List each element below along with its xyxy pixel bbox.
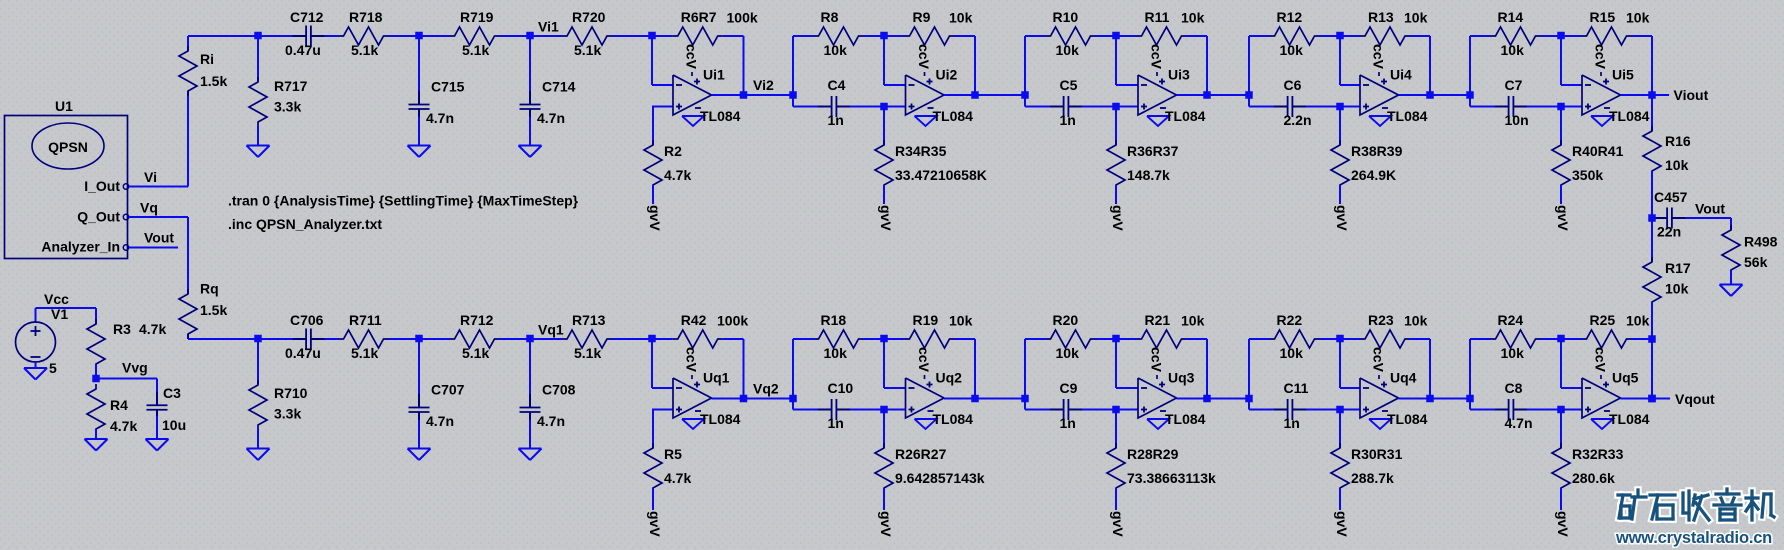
node feedback junction x1116 — [1112, 335, 1120, 343]
wire output of Ui4 — [1399, 94, 1431, 96]
wire R34R35 to Vvg label — [883, 185, 885, 204]
capacitor C715 (shunt) — [418, 36, 420, 97]
wire 1249 up to main line — [1248, 339, 1250, 399]
resistor R719 (5.1k) — [419, 35, 450, 37]
svg-text:10k: 10k — [1665, 281, 1689, 297]
node junction at x258 — [254, 32, 262, 40]
svg-text:R19: R19 — [913, 312, 939, 328]
svg-text:TL084: TL084 — [933, 108, 974, 124]
wire feedback right side down to output — [1429, 339, 1431, 399]
svg-text:C8: C8 — [1505, 380, 1523, 396]
node feedback junction x652 — [648, 32, 656, 40]
svg-text:R718: R718 — [349, 9, 383, 25]
svg-text:22n: 22n — [1657, 224, 1681, 240]
wire non-inverting input to R leg — [653, 106, 673, 108]
node stage input junction x793 — [789, 91, 797, 99]
wire right column vertical Viout to divider — [1651, 95, 1653, 131]
op-amp Uq4 — [1360, 378, 1399, 418]
node output junction of Uq5 — [1648, 395, 1656, 403]
svg-text:1n: 1n — [828, 112, 844, 128]
svg-text:Analyzer_In: Analyzer_In — [41, 239, 120, 255]
ground under R710 — [247, 448, 270, 450]
node feedback junction x652 — [648, 335, 656, 343]
resistor R23 (feedback) — [1340, 338, 1360, 340]
svg-text:ccV: ccV — [684, 347, 700, 373]
wire stage output to next stage input (top) — [1207, 94, 1249, 96]
svg-text:Vi: Vi — [144, 169, 157, 185]
wire Q_Out to Rq column — [129, 216, 188, 218]
resistor R28R29 (to Vvg) — [1115, 410, 1117, 449]
svg-text:33.47210658K: 33.47210658K — [895, 167, 987, 183]
svg-text:R8: R8 — [821, 9, 839, 25]
svg-text:10k: 10k — [1626, 10, 1650, 26]
svg-text:C708: C708 — [542, 381, 576, 397]
resistor Rq — [179, 289, 197, 339]
wire feedback right side down to output — [1651, 36, 1653, 95]
svg-text:R11: R11 — [1145, 9, 1170, 25]
V- power pin triangle of Uq1 — [682, 419, 704, 429]
ground under R498 — [1720, 284, 1743, 286]
node junction at Vqout — [1648, 395, 1656, 403]
svg-text:R4: R4 — [110, 397, 128, 413]
wire cap node to non-inverting input — [1561, 106, 1582, 108]
resistor R4 — [87, 384, 105, 434]
svg-text:10k: 10k — [1280, 42, 1304, 58]
svg-text:10k: 10k — [949, 10, 973, 26]
wire cap node to non-inverting input — [884, 106, 906, 108]
svg-text:10u: 10u — [162, 417, 186, 433]
node Vvg junction — [92, 375, 100, 383]
wire feedback right side down to output — [1206, 36, 1208, 95]
svg-text:R40R41: R40R41 — [1572, 143, 1624, 159]
svg-text:R6R7: R6R7 — [681, 9, 717, 25]
wire stage output to next stage input (bottom) — [1207, 398, 1249, 400]
resistor R13 (feedback) — [1340, 35, 1360, 37]
svg-text:TL084: TL084 — [1387, 411, 1428, 427]
resistor R20 (stage input) — [1025, 338, 1046, 340]
wire V1 bottom — [35, 362, 37, 368]
resistor R10 (stage input) — [1025, 35, 1046, 37]
node junction at x530 — [526, 32, 534, 40]
svg-text:5.1k: 5.1k — [462, 42, 489, 58]
svg-text:Uq3: Uq3 — [1168, 370, 1195, 386]
wire R3 to Vvg node — [95, 364, 97, 379]
V- power pin triangle of Uq4 — [1369, 419, 1391, 429]
svg-text:gvV: gvV — [878, 205, 894, 231]
svg-text:10k: 10k — [824, 42, 848, 58]
svg-text:U1: U1 — [55, 98, 73, 114]
node output junction of Uq1 — [740, 395, 748, 403]
svg-text:R38R39: R38R39 — [1351, 143, 1403, 159]
svg-text:R711: R711 — [349, 312, 382, 328]
svg-text:10k: 10k — [824, 345, 848, 361]
wire Analyzer_In stub — [129, 247, 178, 249]
svg-text:5.1k: 5.1k — [574, 345, 601, 361]
resistor R30R31 (to Vvg) — [1339, 410, 1341, 449]
svg-text:gvV: gvV — [1110, 511, 1126, 537]
wire R36R37 to Vvg label — [1115, 185, 1117, 204]
capacitor C3 — [156, 392, 158, 406]
V- power pin triangle of Ui2 — [915, 116, 937, 126]
resistor R498 — [1730, 218, 1732, 230]
svg-text:gvV: gvV — [878, 511, 894, 537]
wire feedback node down to inverting input — [883, 36, 885, 85]
wire 793 up to main line — [792, 36, 794, 95]
capacitor C707 (shunt) — [418, 339, 420, 400]
resistor R9 (feedback) — [884, 35, 905, 37]
op-amp Ui2 — [906, 75, 945, 115]
svg-text:Vout: Vout — [144, 230, 174, 246]
svg-text:R30R31: R30R31 — [1351, 446, 1403, 462]
wire feedback right side down to output — [1429, 36, 1431, 95]
svg-text:288.7k: 288.7k — [1351, 470, 1394, 486]
resistor R712 (5.1k) — [419, 338, 450, 340]
svg-text:R14: R14 — [1498, 9, 1524, 25]
wire output of Ui3 — [1177, 94, 1208, 96]
wire R2 to Vvg label — [652, 185, 654, 204]
wire output of Uq3 — [1177, 398, 1208, 400]
node feedback junction x1561 — [1557, 335, 1565, 343]
capacitor C706 (series 0.47u) — [258, 338, 299, 340]
op-amp Uq1 — [673, 378, 712, 418]
svg-text:R22: R22 — [1277, 312, 1303, 328]
resistor R38R39 (to Vvg) — [1339, 107, 1341, 146]
svg-text:R713: R713 — [572, 312, 606, 328]
wire output of Uq2 — [944, 398, 975, 400]
svg-text:0.47u: 0.47u — [285, 42, 321, 58]
resistor R25 (feedback) — [1561, 338, 1582, 340]
resistor R18 (stage input) — [793, 338, 814, 340]
svg-text:C5: C5 — [1060, 77, 1078, 93]
node stage input junction x793 — [789, 395, 797, 403]
svg-text:V1: V1 — [51, 306, 68, 322]
node stage input junction x1025 — [1021, 395, 1029, 403]
node output junction of Ui4 — [1426, 91, 1434, 99]
svg-text:R25: R25 — [1590, 312, 1616, 328]
net label Vqout — [1652, 398, 1670, 400]
svg-text:gvV: gvV — [647, 205, 663, 231]
svg-text:ccV: ccV — [1149, 44, 1165, 70]
capacitor C6 — [1274, 106, 1288, 108]
op-amp Uq3 — [1138, 378, 1177, 418]
svg-text:C3: C3 — [163, 385, 181, 401]
node junction at x530 — [526, 335, 534, 343]
svg-text:R28R29: R28R29 — [1127, 446, 1179, 462]
node output junction of Uq2 — [971, 395, 979, 403]
node cap junction x884 — [880, 406, 888, 414]
capacitor C708 (shunt) — [529, 339, 531, 400]
svg-text:C9: C9 — [1060, 380, 1078, 396]
op-amp Uq2 — [906, 378, 945, 418]
wire 793 up to main line — [792, 339, 794, 399]
node cap junction x1561 — [1557, 406, 1565, 414]
svg-text:TL084: TL084 — [1165, 108, 1206, 124]
node junction at x419 — [415, 32, 423, 40]
wire 1470 down to cap line — [1469, 399, 1471, 410]
resistor R19 (feedback) — [884, 338, 905, 340]
wire cap node to non-inverting input — [1116, 106, 1138, 108]
svg-text:R720: R720 — [572, 9, 606, 25]
wire feedback right side down to output — [743, 339, 745, 399]
wire stage1 output to stage2 input — [744, 94, 794, 96]
node junction at x419 — [415, 335, 423, 343]
svg-text:R26R27: R26R27 — [895, 446, 947, 462]
svg-text:R34R35: R34R35 — [895, 143, 947, 159]
wire R32R33 to Vvg label — [1560, 488, 1562, 510]
wire 1249 up to main line — [1248, 36, 1250, 95]
svg-text:R710: R710 — [274, 385, 308, 401]
V- power pin triangle of Ui3 — [1147, 116, 1169, 126]
svg-text:TL084: TL084 — [700, 411, 741, 427]
svg-text:Viout: Viout — [1674, 87, 1709, 103]
wire main line from Ri/Rq to first junction — [188, 338, 258, 340]
op-amp Ui5 — [1582, 75, 1621, 115]
svg-text:100k: 100k — [717, 313, 748, 329]
svg-text:Ri: Ri — [200, 51, 214, 67]
node junction at x258 — [254, 335, 262, 343]
svg-text:10k: 10k — [1181, 313, 1205, 329]
QPSN ellipse — [32, 123, 104, 169]
svg-text:C457: C457 — [1654, 189, 1688, 205]
resistor R8 (stage input) — [793, 35, 814, 37]
wire output of Ui2 — [944, 94, 975, 96]
svg-text:.inc QPSN_Analyzer.txt: .inc QPSN_Analyzer.txt — [228, 216, 382, 232]
resistor Ri — [179, 46, 197, 96]
svg-text:1.5k: 1.5k — [200, 302, 227, 318]
node output junction of Uq4 — [1426, 395, 1434, 403]
resistor R34R35 (to Vvg) — [883, 107, 885, 146]
wire 1025 up to main line — [1024, 339, 1026, 399]
svg-text:10k: 10k — [1404, 10, 1428, 26]
node cap junction x1116 — [1112, 406, 1120, 414]
wire 1470 up to main line — [1469, 36, 1471, 95]
svg-text:C712: C712 — [290, 9, 324, 25]
wire R38R39 to Vvg label — [1339, 185, 1341, 204]
node stage input junction x1025 — [1021, 91, 1029, 99]
V- power pin triangle of Ui5 — [1591, 116, 1613, 126]
svg-text:R20: R20 — [1053, 312, 1079, 328]
node stage input junction x1470 — [1466, 91, 1474, 99]
svg-text:I_Out: I_Out — [84, 178, 120, 194]
wire Rq column vertical — [187, 217, 189, 294]
svg-text:R13: R13 — [1368, 9, 1394, 25]
capacitor C10 — [818, 409, 832, 411]
svg-text:Vq: Vq — [140, 200, 158, 216]
wire output of Uq1 — [712, 398, 744, 400]
svg-text:gvV: gvV — [1555, 511, 1571, 537]
wire C457 to R498 — [1686, 217, 1732, 219]
net label Viout — [1652, 94, 1669, 96]
resistor R32R33 (to Vvg) — [1560, 410, 1562, 449]
svg-text:4.7k: 4.7k — [664, 470, 691, 486]
node C457 junction — [1648, 214, 1656, 222]
wire feedback node down to inverting input — [1339, 36, 1341, 85]
svg-text:C706: C706 — [290, 312, 324, 328]
wire feedback right side down to output — [743, 36, 745, 95]
svg-text:R10: R10 — [1053, 9, 1079, 25]
wire cap node to non-inverting input — [1561, 409, 1582, 411]
node output junction of Ui2 — [971, 91, 979, 99]
svg-text:280.6k: 280.6k — [1572, 470, 1615, 486]
node stage input junction x1249 — [1245, 91, 1253, 99]
wire 1249 down to cap line — [1248, 95, 1250, 107]
V- power pin triangle of Uq5 — [1591, 419, 1613, 429]
wire cap node to non-inverting input — [652, 409, 673, 411]
svg-text:4.7k: 4.7k — [664, 167, 691, 183]
wire I_Out to Ri column — [129, 186, 188, 188]
resistor R36R37 (to Vvg) — [1115, 107, 1117, 146]
ground under C715 — [408, 145, 431, 147]
wire V1 top to R3 — [36, 307, 97, 309]
ground under C708 — [519, 448, 542, 450]
svg-text:Vq2: Vq2 — [753, 381, 779, 397]
wire Vvg node to C3 — [96, 378, 157, 380]
svg-text:C10: C10 — [828, 380, 854, 396]
pin Q_Out — [123, 214, 128, 219]
svg-text:R3: R3 — [113, 321, 131, 337]
wire R30R31 to Vvg label — [1339, 488, 1341, 510]
wire 1025 up to main line — [1024, 36, 1026, 95]
svg-text:QPSN: QPSN — [48, 139, 88, 155]
wire feedback node down to inverting input — [1115, 339, 1117, 388]
svg-text:C7: C7 — [1505, 77, 1523, 93]
svg-text:3.3k: 3.3k — [274, 99, 301, 115]
svg-text:R719: R719 — [460, 9, 494, 25]
pin I_Out — [123, 184, 128, 189]
wire cap node to non-inverting input — [652, 106, 673, 108]
ground under C714 — [519, 145, 542, 147]
ground under C707 — [408, 448, 431, 450]
node output junction of Ui3 — [1203, 91, 1211, 99]
resistor R40R41 (to Vvg) — [1560, 107, 1562, 146]
node cap junction x1340 — [1336, 406, 1344, 414]
node junction R17/R25 — [1648, 335, 1656, 343]
svg-text:4.7n: 4.7n — [426, 110, 454, 126]
resistor R3 — [87, 319, 105, 369]
wire Ri column vertical — [187, 36, 189, 51]
wire feedback right side down to output — [974, 36, 976, 95]
svg-text:73.38663113k: 73.38663113k — [1127, 470, 1216, 486]
svg-text:www.crystalradio.cn: www.crystalradio.cn — [1615, 529, 1772, 547]
ground under R4 — [85, 438, 108, 440]
watermark Chinese characters — [1618, 491, 1630, 499]
svg-text:Uq1: Uq1 — [703, 370, 730, 386]
wire cap node to non-inverting input — [1340, 106, 1360, 108]
wire feedback node down to inverting input — [651, 339, 653, 388]
wire R28R29 to Vvg label — [1115, 488, 1117, 510]
op-amp Ui1 — [673, 75, 712, 115]
wire feedback right side down to output — [1206, 339, 1208, 399]
svg-text:Vout: Vout — [1695, 201, 1725, 217]
svg-text:10k: 10k — [1056, 345, 1080, 361]
svg-text:1.5k: 1.5k — [200, 73, 227, 89]
op-amp Uq5 — [1582, 378, 1621, 418]
svg-text:10n: 10n — [1505, 112, 1529, 128]
wire feedback node down to inverting input — [1115, 36, 1117, 85]
svg-text:4.7n: 4.7n — [426, 413, 454, 429]
svg-text:ccV: ccV — [916, 44, 932, 70]
wire 1025 down to cap line — [1024, 95, 1026, 107]
wire 1249 down to cap line — [1248, 399, 1250, 410]
svg-text:R21: R21 — [1145, 312, 1171, 328]
svg-text:Rq: Rq — [200, 281, 219, 297]
svg-text:10k: 10k — [1665, 157, 1689, 173]
wire 793 down to cap line — [792, 399, 794, 410]
svg-text:TL084: TL084 — [1609, 411, 1650, 427]
node cap junction x1561 — [1557, 103, 1565, 111]
svg-text:1n: 1n — [828, 415, 844, 431]
svg-text:ccV: ccV — [1593, 347, 1609, 373]
svg-text:10k: 10k — [1626, 313, 1650, 329]
resistor R2 (to Vvg) — [652, 107, 654, 146]
node feedback junction x1561 — [1557, 32, 1565, 40]
node output junction of Ui1 — [740, 91, 748, 99]
svg-text:R32R33: R32R33 — [1572, 446, 1624, 462]
node feedback junction x1340 — [1336, 335, 1344, 343]
svg-text:gvV: gvV — [647, 511, 663, 537]
wire R40R41 to Vvg label — [1560, 185, 1562, 204]
svg-text:ccV: ccV — [1371, 347, 1387, 373]
svg-text:Uq5: Uq5 — [1612, 370, 1639, 386]
wire feedback node down to inverting input — [883, 339, 885, 388]
wire R26R27 to Vvg label — [883, 488, 885, 510]
ground under V1 — [24, 367, 47, 369]
svg-text:Vi1: Vi1 — [538, 19, 559, 35]
wire 1470 down to cap line — [1469, 95, 1471, 107]
capacitor C712 (series 0.47u) — [258, 35, 299, 37]
node cap junction x1116 — [1112, 103, 1120, 111]
resistor R718 (5.1k) — [325, 35, 339, 37]
ground under C3 — [146, 438, 169, 440]
resistor R17 — [1651, 218, 1653, 262]
node output junction of Ui5 — [1648, 91, 1656, 99]
svg-text:TL084: TL084 — [1165, 411, 1206, 427]
wire feedback node down to inverting input — [1339, 339, 1341, 388]
op-amp Ui3 — [1138, 75, 1177, 115]
capacitor C5 — [1050, 106, 1064, 108]
node cap junction x884 — [880, 103, 888, 111]
wire R17 down to Vqout node — [1651, 302, 1653, 399]
svg-text:Vqout: Vqout — [1675, 391, 1715, 407]
wire C3 bottom — [156, 416, 158, 439]
svg-text:TL084: TL084 — [933, 411, 974, 427]
svg-text:4.7n: 4.7n — [537, 110, 565, 126]
svg-text:4.7k: 4.7k — [110, 418, 137, 434]
svg-text:56k: 56k — [1744, 254, 1768, 270]
node stage input junction x1249 — [1245, 395, 1253, 403]
svg-text:R17: R17 — [1665, 260, 1691, 276]
svg-text:R36R37: R36R37 — [1127, 143, 1179, 159]
wire R5 to Vvg label — [652, 488, 654, 510]
V- power pin triangle of Uq2 — [915, 419, 937, 429]
svg-text:148.7k: 148.7k — [1127, 167, 1170, 183]
svg-text:Q_Out: Q_Out — [77, 209, 120, 225]
svg-text:Ui5: Ui5 — [1612, 67, 1634, 83]
wire output of Uq4 — [1399, 398, 1431, 400]
svg-text:C4: C4 — [828, 77, 846, 93]
svg-text:10k: 10k — [949, 313, 973, 329]
V- power pin triangle of Ui1 — [682, 116, 704, 126]
svg-text:R18: R18 — [821, 312, 847, 328]
svg-text:5.1k: 5.1k — [574, 42, 601, 58]
svg-text:R5: R5 — [664, 446, 682, 462]
wire cap node to non-inverting input — [884, 409, 906, 411]
svg-text:ccV: ccV — [1149, 347, 1165, 373]
svg-text:Vvg: Vvg — [122, 360, 148, 376]
capacitor C9 — [1050, 409, 1064, 411]
svg-text:10k: 10k — [1056, 42, 1080, 58]
wire feedback right side down to output — [974, 339, 976, 399]
